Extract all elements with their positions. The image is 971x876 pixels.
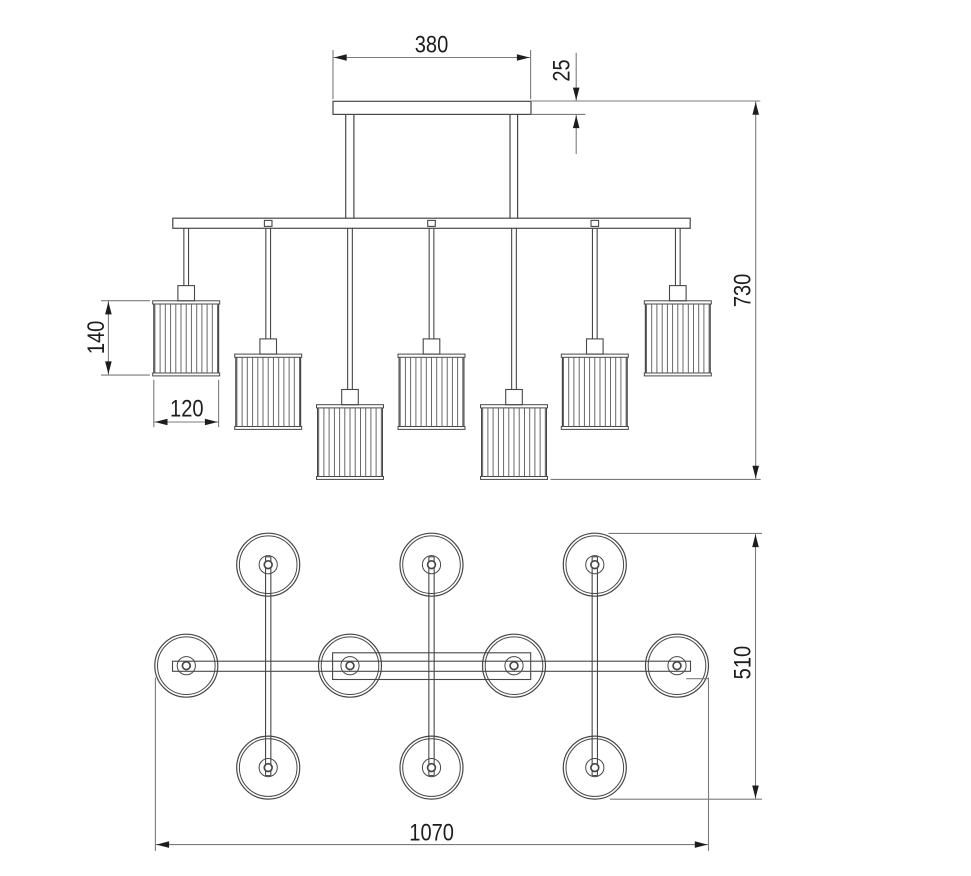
dim 510 line <box>755 533 757 799</box>
socket S3 <box>342 390 359 405</box>
shade S2 side walls <box>235 357 237 426</box>
shade S7 side walls <box>644 304 646 373</box>
shade S4 pleat stripes <box>400 357 463 426</box>
hanger bar (front view) <box>173 218 690 228</box>
ceiling mount plate (front view) <box>333 101 531 114</box>
pendant wire S5 <box>511 228 513 390</box>
shade S7 pleat stripes <box>647 304 710 373</box>
dim 1070 line <box>155 844 708 846</box>
dim 380 arrows <box>334 54 347 61</box>
socket S7 <box>670 286 687 301</box>
shade S5 top rim band <box>481 405 548 408</box>
lamp circle L6 outer rims <box>483 634 546 697</box>
shade S5 bottom rim band <box>481 477 548 480</box>
lamp circle L1 outer rims <box>237 533 300 596</box>
hanger square at x=431.5 <box>428 220 436 226</box>
lamp circle L1 hub <box>259 556 277 574</box>
dim 120 line <box>154 421 219 423</box>
dim 730 arrows <box>752 102 759 115</box>
shade S5 side walls <box>481 408 483 477</box>
lamp circle L5 outer rims <box>319 634 382 697</box>
shade S3 top rim band <box>317 405 384 408</box>
shade S6 pleat stripes <box>564 357 627 426</box>
shade S7 top rim band <box>644 301 711 304</box>
shade S4 top rim band <box>398 354 465 357</box>
shade S2 pleat stripes <box>237 357 300 426</box>
dim 510 extension lines <box>609 532 763 534</box>
shade S2 bottom rim band <box>235 427 302 430</box>
mount plate outline (top view) <box>333 653 531 680</box>
pendant wire S2 <box>265 228 267 339</box>
lamp circle L3 outer rims <box>563 533 626 596</box>
dim 25 extension lines <box>531 100 760 102</box>
lamp circle L2 hub <box>422 556 440 574</box>
socket S2 <box>260 339 277 354</box>
shade S7 bottom rim band <box>644 373 711 376</box>
svg-text:510: 510 <box>731 646 757 680</box>
socket S6 <box>587 339 604 354</box>
hanger square at x=268.2 <box>264 220 272 226</box>
pendant wire S7 <box>674 228 676 286</box>
dim 140 arrows <box>105 302 112 315</box>
dim 380 line <box>333 57 531 59</box>
dim 25 arrows <box>573 88 580 101</box>
svg-text:730: 730 <box>731 274 757 308</box>
socket S1 <box>178 286 195 301</box>
lamp circle L8 outer rims <box>237 736 300 799</box>
lamp circle L9 outer rims <box>400 736 463 799</box>
shade S3 bottom rim band <box>317 477 384 480</box>
lamp circle L6 hub <box>505 657 523 675</box>
shade S1 pleat stripes <box>155 304 218 373</box>
lamp circle L8 hub <box>259 759 277 777</box>
lamp circle L7 hub <box>668 657 686 675</box>
pendant wire S1 <box>183 228 185 286</box>
lamp circle L5 hub <box>341 657 359 675</box>
cross arms (top view) <box>265 557 267 776</box>
dim 120 arrows <box>155 419 168 426</box>
svg-text:1070: 1070 <box>409 821 454 847</box>
lamp circle L3 hub <box>586 556 604 574</box>
dim 730 line <box>755 101 757 479</box>
shade S3 pleat stripes <box>319 408 382 477</box>
lamp circle L4 hub <box>177 657 195 675</box>
hanger square at x=594.8 <box>591 220 599 226</box>
svg-text:25: 25 <box>550 59 576 81</box>
shade S6 top rim band <box>561 354 628 357</box>
shade S1 top rim band <box>153 301 220 304</box>
dim 510 arrows <box>752 534 759 547</box>
pendant wire S6 <box>591 228 593 339</box>
shade S1 side walls <box>153 304 155 373</box>
shade S4 bottom rim band <box>398 427 465 430</box>
lamp circle L10 outer rims <box>563 736 626 799</box>
shade S6 side walls <box>561 357 563 426</box>
shade S3 side walls <box>317 408 319 477</box>
dim 140 extension lines <box>101 300 150 302</box>
support rod left <box>345 114 347 218</box>
lamp circle L7 outer rims <box>646 634 709 697</box>
dim 140 line <box>107 301 109 375</box>
lamp circle L9 hub <box>422 759 440 777</box>
central bar (top view) <box>173 661 691 671</box>
shade S1 bottom rim band <box>153 373 220 376</box>
lamp circle L10 hub <box>586 759 604 777</box>
svg-text:140: 140 <box>84 321 110 355</box>
dim 1070 arrows <box>156 841 169 848</box>
pendant wire S3 <box>347 228 349 390</box>
shade S6 bottom rim band <box>561 427 628 430</box>
shade S5 pleat stripes <box>483 408 546 477</box>
pendant wire S4 <box>428 228 430 339</box>
socket S5 <box>506 390 523 405</box>
dim 1070 extension lines <box>154 678 156 851</box>
lamp circle L4 outer rims <box>155 634 218 697</box>
socket S4 <box>423 339 440 354</box>
svg-text:120: 120 <box>170 396 204 422</box>
dim 25 line <box>575 53 577 101</box>
dim 120 extension lines <box>153 380 155 427</box>
dim 730 extension line bottom <box>551 478 761 480</box>
support rod right <box>509 114 511 218</box>
shade S4 side walls <box>398 357 400 426</box>
shade S2 top rim band <box>235 354 302 357</box>
svg-text:380: 380 <box>415 33 449 59</box>
dim 380 extension lines <box>332 50 334 99</box>
lamp circle L2 outer rims <box>400 533 463 596</box>
